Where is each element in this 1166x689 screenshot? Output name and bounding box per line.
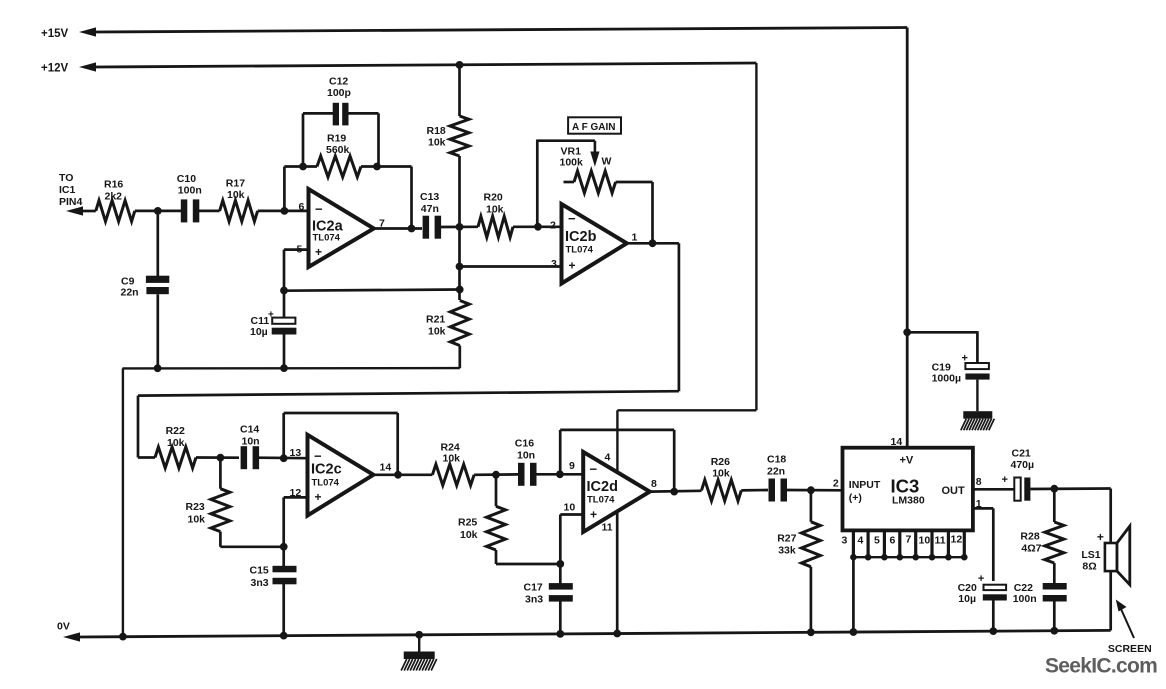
svg-text:IC2b: IC2b	[565, 229, 597, 245]
node +15V / C19 junction	[903, 328, 911, 336]
svg-text:14: 14	[380, 462, 392, 474]
svg-text:8Ω: 8Ω	[1082, 561, 1096, 573]
svg-text:SCREEN: SCREEN	[1108, 643, 1152, 655]
resistor R16	[96, 179, 135, 222]
svg-text:R25: R25	[458, 517, 477, 529]
svg-text:100k: 100k	[560, 157, 584, 169]
svg-text:A F GAIN: A F GAIN	[572, 122, 616, 133]
SCREEN label	[1108, 643, 1152, 655]
node 0V rail / C15	[280, 632, 288, 640]
svg-text:TL074: TL074	[587, 495, 615, 506]
svg-text:10n: 10n	[242, 436, 260, 448]
svg-text:3n3: 3n3	[525, 594, 543, 606]
node C9 ground junction	[154, 364, 162, 372]
svg-text:47n: 47n	[421, 203, 439, 215]
capacitor C21	[1002, 448, 1035, 501]
svg-text:R23: R23	[186, 501, 205, 513]
svg-text:IC3: IC3	[891, 476, 920, 497]
wire R26 to C18	[741, 489, 768, 492]
input label TO IC1 PIN4	[59, 172, 83, 208]
svg-text:10k: 10k	[460, 529, 478, 541]
op-amp IC2d	[564, 452, 658, 534]
node R19 right junction	[373, 163, 381, 171]
wire IC2c output	[373, 473, 432, 476]
capacitor C22	[1013, 563, 1067, 631]
svg-text:1: 1	[632, 232, 638, 244]
svg-text:R16: R16	[104, 179, 123, 191]
wire bias to IC2b pin 3	[460, 265, 562, 268]
+12V rail wire	[79, 62, 756, 410]
SCREEN arrow	[1116, 600, 1134, 639]
node 0V rail / IC3 gnd	[850, 628, 858, 636]
speaker LS1	[1081, 526, 1129, 585]
wire C18 to IC3 pin 2	[787, 489, 844, 492]
svg-text:R20: R20	[484, 192, 503, 204]
svg-text:100n: 100n	[178, 185, 202, 197]
svg-text:C13: C13	[420, 191, 439, 203]
node IC2b output junction	[649, 239, 657, 247]
node 0V rail / left drop	[119, 633, 127, 641]
0V rail wire	[63, 630, 1111, 641]
resistor R18	[427, 116, 470, 156]
node 0V rail / C17	[556, 630, 564, 638]
wire IC2c pin 12	[284, 497, 308, 546]
IC3 ground pins (3,4,5,6,7,10,11,12)	[842, 530, 968, 560]
ground symbol C19	[961, 411, 995, 430]
wire IC2b output feedback	[138, 243, 679, 457]
capacitor C17	[524, 564, 573, 634]
node IC2d output junction	[670, 488, 678, 496]
capacitor C16	[515, 438, 537, 486]
svg-text:PIN4: PIN4	[59, 196, 83, 208]
svg-text:R28: R28	[1020, 531, 1039, 543]
svg-text:8: 8	[976, 476, 982, 488]
node R22/R23 junction	[217, 454, 225, 462]
svg-text:4: 4	[605, 452, 611, 464]
node bias/pin3 junction	[456, 263, 464, 271]
capacitor C13	[420, 191, 441, 239]
svg-text:C10: C10	[177, 173, 196, 185]
wire IC2d pin 10	[560, 515, 583, 565]
capacitor C19	[932, 353, 990, 412]
svg-text:W: W	[602, 156, 612, 168]
wire bias chain middle	[458, 156, 461, 300]
node R19 left junction	[299, 163, 307, 171]
svg-text:6: 6	[890, 535, 896, 547]
svg-text:+V: +V	[900, 455, 914, 467]
node 0V rail / R27	[807, 628, 815, 636]
capacitor C15	[250, 547, 297, 636]
wire speaker to 0V	[1109, 571, 1112, 630]
svg-text:22n: 22n	[767, 466, 785, 478]
wire R17 to IC2a pin 6	[258, 210, 308, 213]
wire IC2d output	[650, 489, 702, 493]
node 0V rail / C22	[1050, 627, 1058, 635]
node IC2c pin13 junction	[280, 454, 288, 462]
node IC2d pin9 junction	[556, 470, 564, 478]
wire R16 to C10	[135, 210, 181, 213]
svg-text:+: +	[315, 245, 322, 259]
wire IC3 ground to 0V	[852, 557, 855, 633]
svg-text:+: +	[978, 573, 984, 585]
svg-text:C14: C14	[240, 424, 259, 436]
wire R22 to C14	[196, 456, 239, 459]
svg-text:10k: 10k	[428, 137, 446, 149]
resistor R25	[458, 475, 560, 564]
svg-text:2: 2	[833, 478, 839, 490]
wire C10 to R17	[199, 210, 220, 213]
pot VR1 labels	[560, 146, 584, 169]
resistor R17	[220, 178, 258, 222]
svg-text:10k: 10k	[712, 468, 730, 480]
node IC2b pin2 junction	[534, 223, 542, 231]
wire VR1 to IC2b output	[616, 182, 653, 243]
svg-text:10k: 10k	[428, 326, 446, 338]
svg-text:6: 6	[299, 201, 305, 213]
svg-text:R27: R27	[777, 533, 796, 545]
svg-text:+: +	[569, 259, 576, 273]
resistor R24	[432, 442, 474, 486]
svg-text:0V: 0V	[57, 621, 70, 633]
svg-text:+: +	[590, 508, 597, 522]
svg-text:7: 7	[906, 534, 912, 546]
node 0V rail / IC2d pin11	[613, 630, 621, 638]
svg-text:SeekIC.com: SeekIC.com	[1045, 655, 1157, 678]
svg-text:13: 13	[290, 447, 302, 459]
svg-text:11: 11	[602, 522, 613, 534]
wire analog ground mid	[123, 368, 460, 636]
node pin5/bias junction	[456, 286, 464, 294]
svg-text:10k: 10k	[486, 204, 504, 216]
ground symbol on 0V rail	[401, 635, 437, 671]
svg-text:IC2c: IC2c	[311, 462, 342, 478]
wire VR1 wiper to pin2	[536, 140, 539, 227]
+12V label	[41, 63, 69, 75]
resistor R26	[702, 456, 742, 501]
wire C13 to R20	[441, 225, 478, 228]
wire IC2a pin 5	[284, 250, 460, 291]
svg-text:R17: R17	[226, 178, 245, 190]
svg-text:10µ: 10µ	[250, 326, 268, 338]
svg-text:TL074: TL074	[312, 478, 340, 489]
resistor R20	[478, 192, 513, 238]
wire IC2a feedback right	[361, 167, 412, 229]
svg-text:4Ω7: 4Ω7	[1021, 543, 1041, 555]
node 0V rail / ground stub	[415, 631, 423, 639]
wire C14 to IC2c pin 13	[259, 456, 309, 459]
svg-text:TO: TO	[59, 172, 73, 184]
node IC2a output junction	[408, 225, 416, 233]
svg-text:C15: C15	[250, 565, 269, 577]
svg-text:−: −	[568, 211, 576, 226]
IC3 pin 1 label	[976, 498, 982, 510]
svg-text:4: 4	[858, 535, 864, 547]
svg-text:5: 5	[874, 535, 880, 547]
svg-text:10µ: 10µ	[958, 593, 976, 605]
svg-text:100p: 100p	[327, 87, 351, 99]
resistor R22	[138, 425, 196, 468]
svg-text:+: +	[1097, 530, 1104, 544]
IC3 pin 8 label	[976, 476, 982, 488]
wire C21 to speaker	[1030, 489, 1110, 544]
wire R23 to pin12 node	[220, 545, 283, 548]
svg-text:10n: 10n	[517, 450, 535, 462]
0V label	[57, 621, 70, 633]
svg-text:3n3: 3n3	[251, 577, 269, 589]
op-amp IC2a	[297, 189, 386, 267]
svg-text:R19: R19	[327, 133, 346, 145]
svg-text:LM380: LM380	[892, 495, 925, 507]
svg-text:R26: R26	[711, 456, 730, 468]
node IC2c pin12 junction	[280, 543, 288, 551]
node IC2c output junction	[394, 471, 402, 479]
capacitor C14	[240, 424, 260, 470]
svg-text:1000µ: 1000µ	[932, 373, 961, 385]
node input junction	[154, 207, 162, 215]
node C18/R27 junction	[807, 486, 815, 494]
svg-text:C16: C16	[515, 438, 534, 450]
svg-text:−: −	[315, 202, 323, 217]
node C13/R20 bias junction	[456, 223, 464, 231]
resistor R19	[317, 133, 361, 178]
svg-text:33k: 33k	[778, 545, 796, 557]
svg-text:R22: R22	[166, 425, 185, 437]
svg-text:3: 3	[842, 535, 848, 547]
node C21/R28 junction	[1050, 485, 1058, 493]
svg-text:560k: 560k	[326, 144, 350, 156]
svg-text:IC1: IC1	[59, 184, 76, 196]
wire IC2d feedback	[560, 430, 674, 492]
IC3 pin 14 label	[891, 436, 903, 448]
node +12V / bias junction	[456, 61, 464, 69]
AF GAIN box	[568, 117, 621, 133]
svg-text:11: 11	[935, 535, 946, 547]
+15V rail wire	[79, 27, 907, 447]
op-amp IC2c	[290, 435, 392, 516]
svg-text:C21: C21	[1012, 448, 1031, 460]
wire bias chain upper	[458, 65, 461, 116]
svg-text:100n: 100n	[1013, 593, 1037, 605]
IC3 pin 2 label	[833, 478, 839, 490]
capacitor C12	[303, 76, 379, 168]
svg-text:(+): (+)	[849, 492, 862, 504]
svg-text:10: 10	[919, 535, 931, 547]
node IC2a pin 6 junction	[281, 207, 289, 215]
wire IC3 pin 1	[973, 508, 993, 581]
svg-text:3: 3	[551, 258, 557, 270]
wire bias chain lower	[458, 346, 461, 369]
resistor R27	[777, 490, 820, 633]
svg-text:C12: C12	[329, 76, 348, 88]
svg-text:10k: 10k	[443, 453, 461, 465]
svg-text:TL074: TL074	[313, 233, 341, 244]
svg-text:+15V: +15V	[41, 28, 69, 40]
svg-text:IC2d: IC2d	[587, 479, 618, 495]
power amp IC3	[843, 448, 973, 531]
wire IC2d pin 11 to 0V	[616, 511, 619, 634]
capacitor C20	[958, 573, 1007, 631]
svg-text:+: +	[1002, 474, 1008, 486]
svg-text:2: 2	[550, 220, 556, 232]
svg-text:OUT: OUT	[942, 485, 966, 497]
svg-text:9: 9	[569, 460, 575, 472]
capacitor C10	[177, 173, 202, 222]
capacitor C11	[250, 291, 296, 369]
node IC2a pin5 junction	[280, 287, 288, 295]
resistor R28	[1020, 489, 1063, 563]
svg-text:TL074: TL074	[566, 245, 594, 256]
node IC2d pin10 junction	[556, 560, 564, 568]
svg-text:R21: R21	[426, 314, 445, 326]
svg-text:LS1: LS1	[1081, 549, 1100, 561]
SeekIC.com watermark	[1045, 655, 1157, 678]
wire IC2c feedback	[284, 413, 398, 475]
svg-text:10: 10	[564, 502, 576, 514]
node C11 ground junction	[280, 364, 288, 372]
svg-text:12: 12	[951, 534, 963, 546]
op-amp IC2b	[550, 204, 638, 284]
wire R20 to IC2b pin 2	[513, 225, 562, 228]
svg-text:+: +	[315, 490, 322, 504]
wire R24 to C16	[474, 473, 518, 476]
svg-text:22n: 22n	[121, 287, 139, 299]
svg-text:R18: R18	[427, 125, 446, 137]
resistor R23	[186, 458, 230, 547]
wire C16 to IC2d pin 9	[536, 473, 583, 476]
pot VR1 wiper wire	[537, 141, 611, 168]
wire IC3 pin 8 out	[973, 488, 1014, 491]
+15V label	[41, 28, 69, 40]
svg-text:INPUT: INPUT	[849, 479, 881, 491]
capacitor C18	[767, 454, 787, 502]
svg-text:8: 8	[651, 478, 657, 490]
wire +12V to IC2d pin 4	[617, 410, 756, 472]
svg-text:10k: 10k	[188, 514, 206, 526]
pot VR1 element	[564, 171, 616, 193]
svg-text:C18: C18	[767, 454, 786, 466]
node 0V rail / C20	[989, 627, 997, 635]
input arrow	[66, 206, 96, 215]
node R24/R25 junction	[492, 471, 500, 479]
svg-text:+12V: +12V	[41, 63, 69, 75]
wire IC2a feedback left	[284, 167, 317, 211]
svg-text:−: −	[590, 462, 598, 477]
svg-text:10k: 10k	[167, 437, 185, 449]
wire IC2a output	[374, 227, 422, 230]
resistor R21	[426, 301, 469, 346]
capacitor C9	[121, 211, 170, 368]
svg-text:470µ: 470µ	[1011, 459, 1035, 471]
wire +15V to C19	[907, 331, 977, 363]
svg-text:C17: C17	[524, 582, 543, 594]
